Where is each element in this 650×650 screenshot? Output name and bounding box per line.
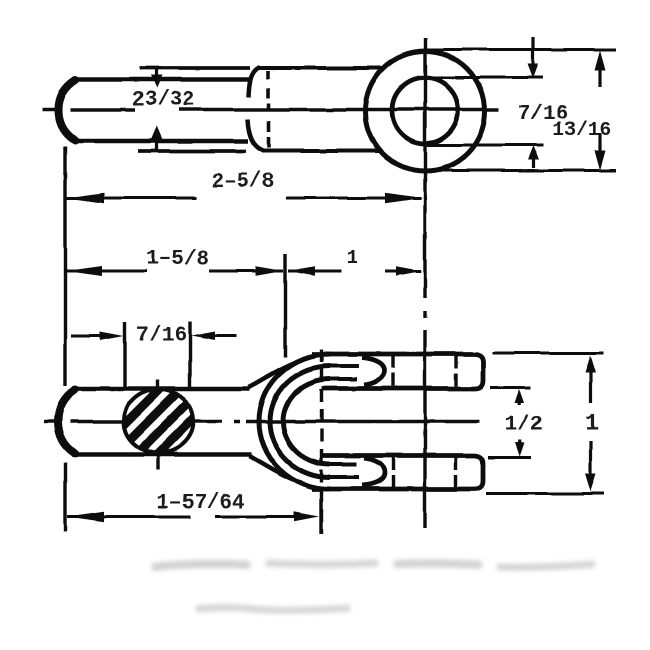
svg-text:1: 1 (346, 247, 358, 269)
svg-text:23/32: 23/32 (132, 89, 195, 112)
svg-text:13/16: 13/16 (553, 119, 612, 141)
svg-text:7/16: 7/16 (136, 325, 186, 348)
svg-text:1–5/8: 1–5/8 (146, 248, 209, 271)
svg-text:2–5/8: 2–5/8 (211, 171, 274, 194)
svg-text:1–57/64: 1–57/64 (156, 492, 244, 515)
svg-text:1/2: 1/2 (505, 414, 543, 437)
svg-text:1: 1 (585, 410, 599, 436)
